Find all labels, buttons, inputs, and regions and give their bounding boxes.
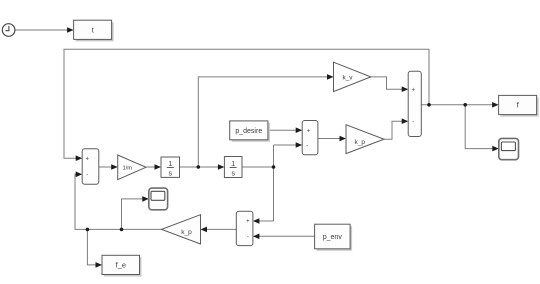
svg-text:k_p: k_p xyxy=(355,139,366,146)
svg-text:-: - xyxy=(412,119,414,125)
svg-text:p_desire: p_desire xyxy=(235,128,262,135)
svg-text:1/m: 1/m xyxy=(122,166,132,172)
svg-text:-: - xyxy=(86,173,88,179)
svg-text:f_e: f_e xyxy=(116,261,126,270)
svg-text:k_p: k_p xyxy=(181,229,192,236)
svg-text:k_v: k_v xyxy=(342,74,353,81)
svg-text:s: s xyxy=(231,171,235,178)
svg-text:+: + xyxy=(307,128,311,134)
svg-text:-: - xyxy=(306,143,308,149)
svg-text:s: s xyxy=(169,171,173,178)
svg-text:+: + xyxy=(246,219,250,225)
svg-text:1: 1 xyxy=(168,161,172,168)
svg-text:-: - xyxy=(247,234,249,240)
svg-text:+: + xyxy=(412,87,416,93)
svg-text:1: 1 xyxy=(231,161,235,168)
svg-text:+: + xyxy=(86,156,90,162)
svg-text:p_env: p_env xyxy=(323,234,343,241)
